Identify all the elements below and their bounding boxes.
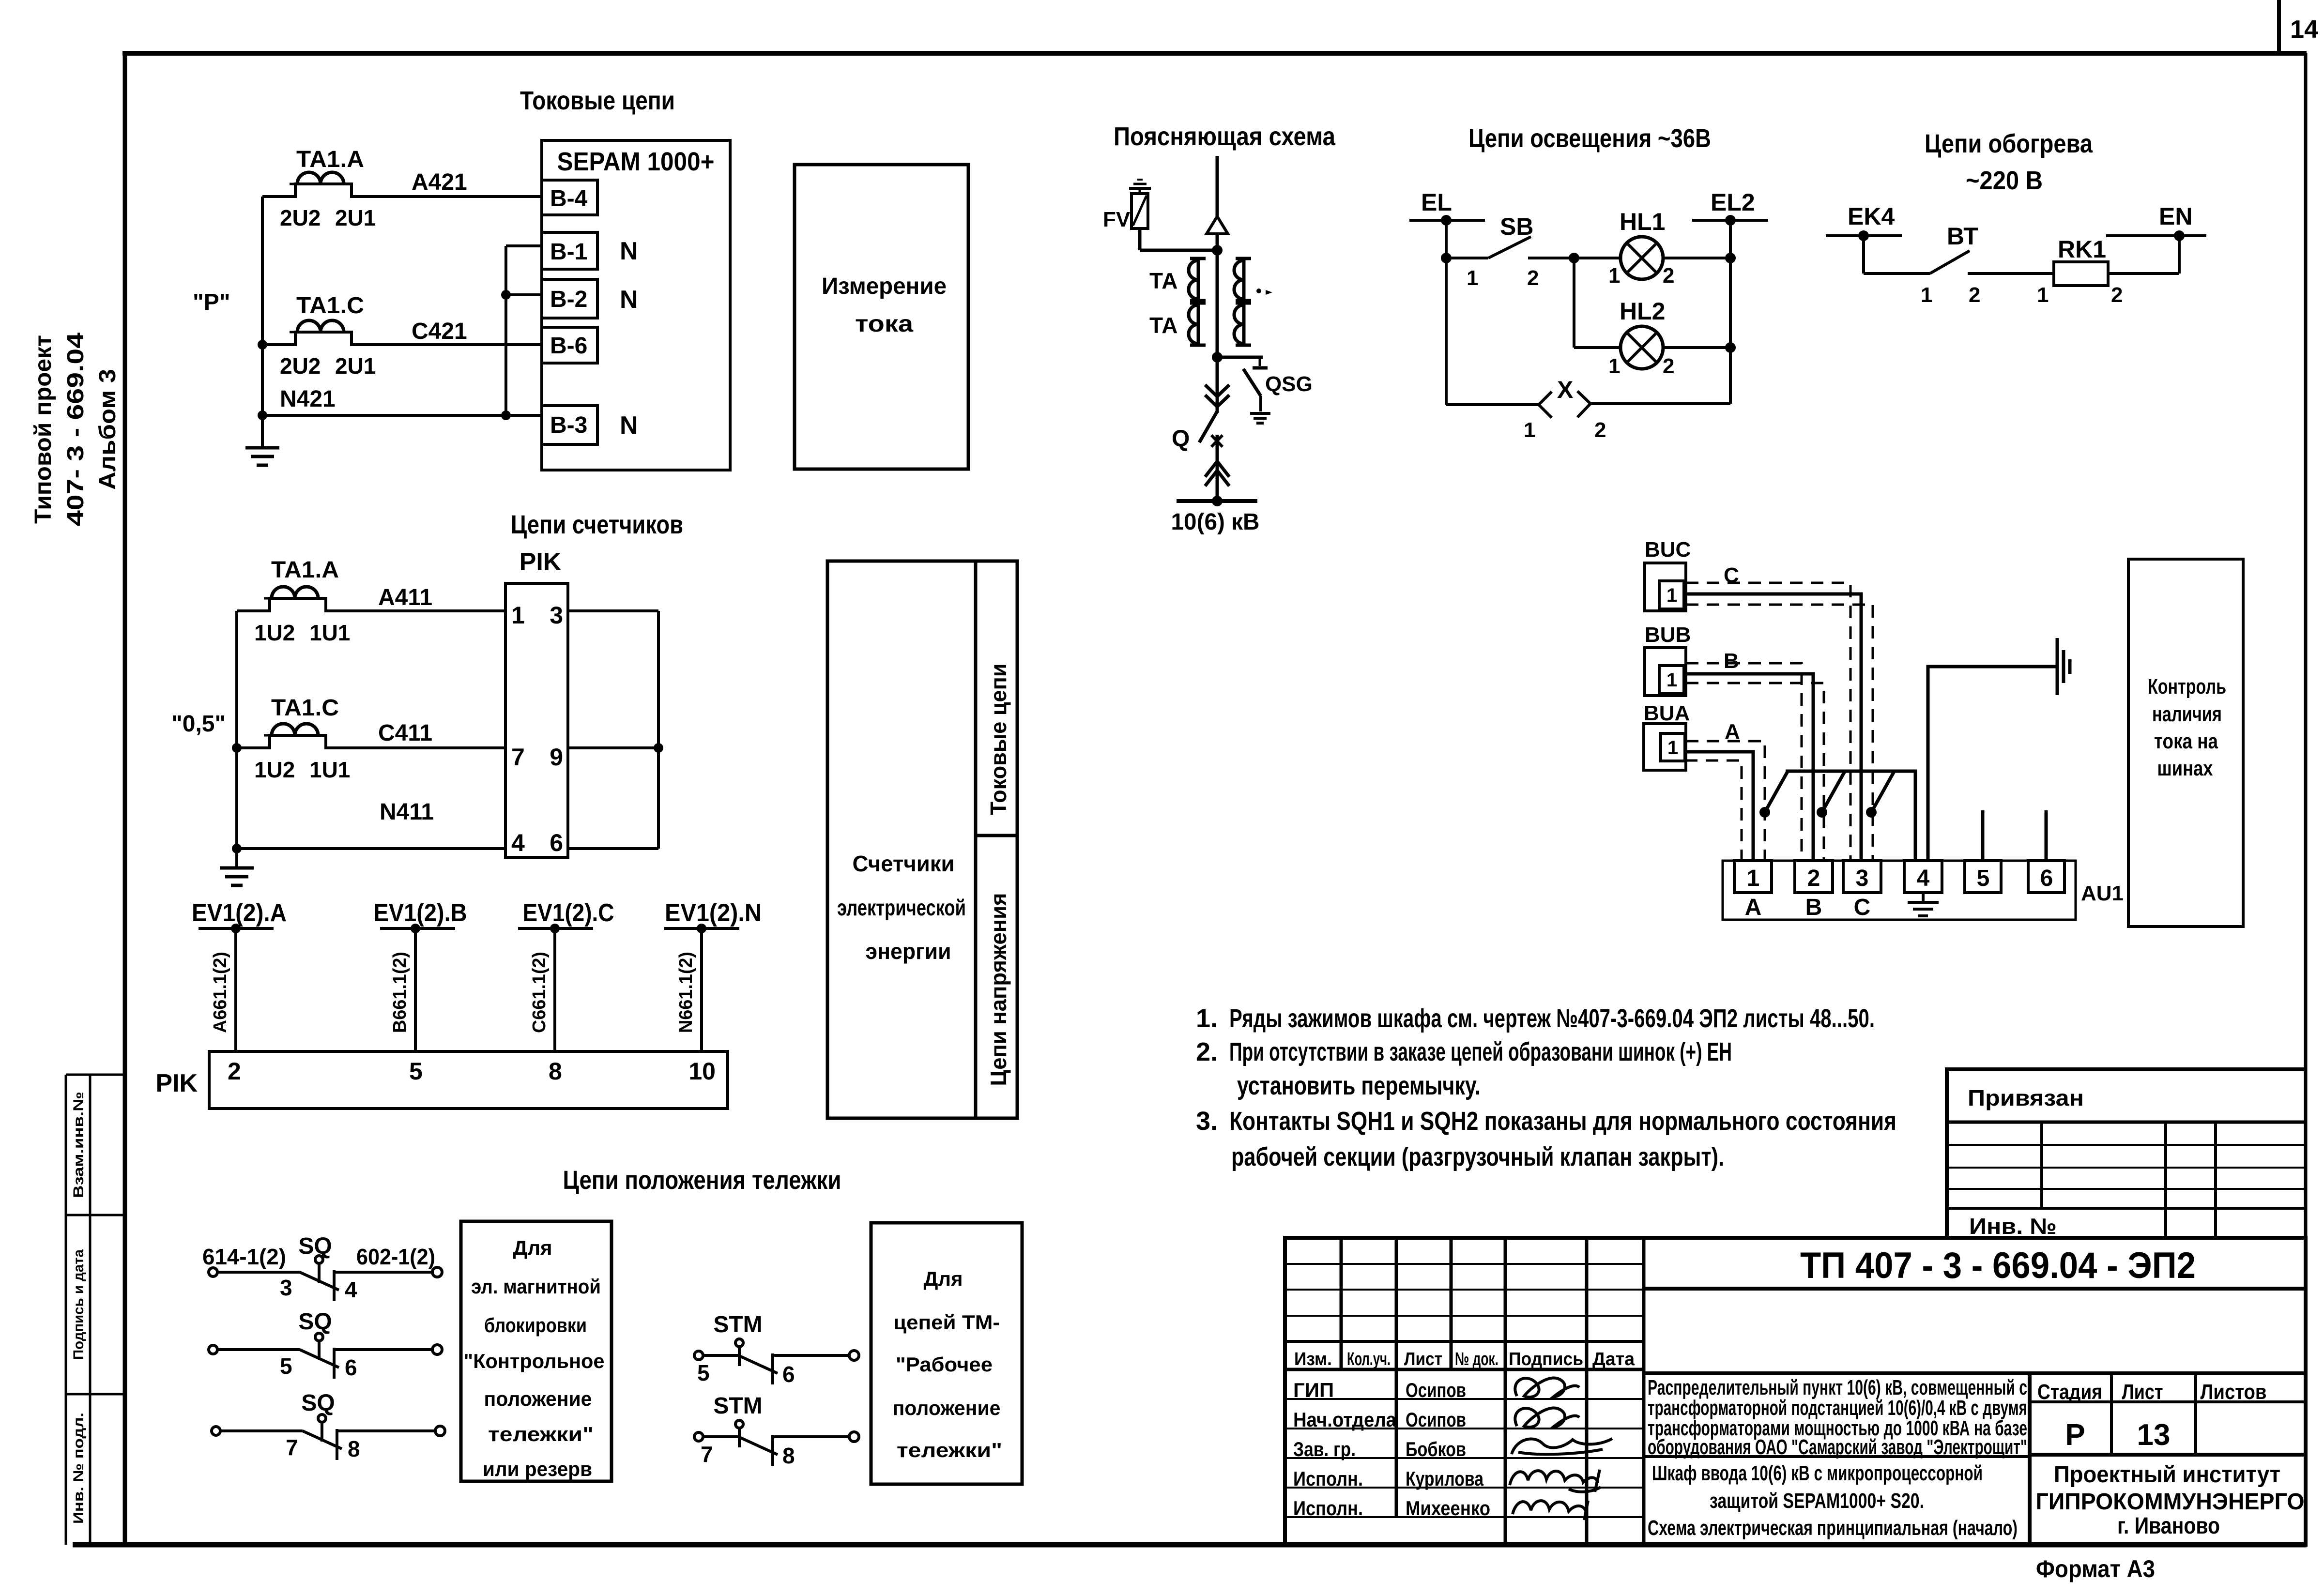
svg-text:А: А [1745,895,1762,920]
svg-text:цепей ТМ-: цепей ТМ- [893,1311,1000,1334]
svg-text:Лист: Лист [1404,1349,1442,1369]
svg-text:5: 5 [280,1353,292,1379]
svg-text:Для: Для [923,1267,963,1290]
svg-text:Шкаф ввода 10(6) кВ с микропро: Шкаф ввода 10(6) кВ с микропроцессорной [1652,1461,1983,1485]
svg-text:6: 6 [782,1362,795,1387]
svg-text:Поясняющая схема: Поясняющая схема [1114,122,1336,151]
svg-text:шинах: шинах [2157,757,2213,780]
svg-text:N661.1(2): N661.1(2) [676,952,696,1033]
svg-text:С: С [1854,895,1871,920]
svg-text:Листов: Листов [2201,1380,2267,1404]
svg-text:Р: Р [2065,1418,2085,1452]
svg-text:EL2: EL2 [1711,189,1755,216]
svg-text:Инв. №: Инв. № [1969,1214,2057,1239]
svg-text:защитой SEPAM1000+ S20.: защитой SEPAM1000+ S20. [1710,1489,1924,1513]
svg-text:С411: С411 [378,720,432,746]
svg-text:В-6: В-6 [550,333,587,359]
svg-text:электрической: электрической [837,895,966,920]
svg-text:или резерв: или резерв [483,1458,592,1480]
svg-text:2U2: 2U2 [280,353,321,379]
svg-text:Q: Q [1172,426,1190,452]
svg-text:2: 2 [1594,418,1606,442]
svg-text:2: 2 [1663,264,1674,288]
svg-text:10: 10 [688,1058,716,1085]
svg-text:3: 3 [1856,866,1869,891]
svg-text:"Р": "Р" [193,289,230,315]
svg-text:7: 7 [286,1435,298,1460]
svg-text:тележки": тележки" [897,1439,1002,1461]
svg-text:QSG: QSG [1265,372,1313,396]
svg-text:2: 2 [1663,354,1674,378]
svg-text:3: 3 [550,602,563,629]
svg-text:8: 8 [782,1443,795,1468]
svg-text:рабочей секции (разгрузочный к: рабочей секции (разгрузочный клапан закр… [1231,1142,1724,1171]
svg-text:10(6) кВ: 10(6) кВ [1171,509,1260,535]
svg-text:1: 1 [1667,737,1678,759]
svg-text:14: 14 [2290,15,2318,44]
svg-text:Исполн.: Исполн. [1293,1467,1363,1490]
svg-text:Курилова: Курилова [1406,1467,1484,1490]
svg-text:2U1: 2U1 [335,205,376,230]
svg-text:Альбом 3: Альбом 3 [95,369,121,490]
svg-text:Проектный институт: Проектный институт [2054,1462,2280,1488]
svg-text:1U1: 1U1 [309,757,350,782]
svg-text:"Контрольное: "Контрольное [464,1350,605,1372]
svg-text:~220 В: ~220 В [1966,166,2043,195]
svg-text:Контроль: Контроль [2148,675,2226,699]
svg-text:ВТ: ВТ [1947,223,1978,250]
svg-text:SEPAM 1000+: SEPAM 1000+ [557,147,715,176]
svg-text:7: 7 [511,744,525,771]
svg-text:Исполн.: Исполн. [1293,1497,1363,1520]
svg-text:1: 1 [1667,585,1677,606]
svg-text:положение: положение [484,1387,592,1410]
svg-text:Лист: Лист [2122,1380,2163,1404]
svg-text:N: N [620,237,638,265]
svg-text:положение: положение [893,1397,1001,1419]
svg-text:№ док.: № док. [1455,1349,1498,1369]
svg-text:Подпись: Подпись [1509,1349,1583,1369]
svg-text:Подпись и дата: Подпись и дата [71,1249,87,1360]
svg-text:2: 2 [1527,266,1539,290]
svg-text:С421: С421 [412,319,467,344]
svg-text:Кол.уч.: Кол.уч. [1347,1349,1391,1369]
svg-text:2U2: 2U2 [280,205,321,230]
svg-text:13: 13 [2137,1418,2171,1452]
svg-text:SB: SB [1500,213,1533,240]
svg-text:В661.1(2): В661.1(2) [390,952,410,1033]
svg-text:PIK: PIK [155,1069,198,1097]
svg-text:N: N [620,286,638,314]
svg-text:Цепи счетчиков: Цепи счетчиков [511,510,683,539]
svg-text:7: 7 [701,1442,713,1467]
svg-text:ТА1.А: ТА1.А [296,147,364,172]
svg-text:В-2: В-2 [550,287,587,312]
svg-text:Осипов: Осипов [1406,1408,1466,1431]
svg-text:Нач.отдела: Нач.отдела [1293,1408,1397,1431]
svg-text:9: 9 [550,744,563,771]
svg-text:тока на: тока на [2154,730,2218,753]
svg-text:Счетчики: Счетчики [853,851,955,876]
svg-text:ТП 407 - 3 - 669.04 - ЭП2: ТП 407 - 3 - 669.04 - ЭП2 [1800,1245,2196,1286]
svg-text:5: 5 [409,1058,423,1085]
svg-text:N411: N411 [380,799,434,825]
svg-text:STM: STM [713,1393,762,1419]
svg-text:2: 2 [2111,283,2123,307]
svg-text:Ряды зажимов шкафа см. чертеж: Ряды зажимов шкафа см. чертеж №407-3-669… [1229,1004,1875,1033]
svg-text:ТА1.С: ТА1.С [296,293,364,319]
svg-text:602-1(2): 602-1(2) [356,1244,435,1269]
svg-text:BUB: BUB [1645,623,1691,647]
svg-text:BUC: BUC [1645,538,1691,562]
svg-text:2: 2 [1807,866,1820,891]
svg-text:Токовые цепи: Токовые цепи [986,664,1011,815]
svg-text:Цепи освещения ~36В: Цепи освещения ~36В [1468,124,1711,153]
svg-text:1: 1 [2037,283,2049,307]
svg-text:ТА: ТА [1149,313,1177,338]
svg-text:Привязан: Привязан [1968,1085,2084,1110]
svg-text:Цепи положения тележки: Цепи положения тележки [563,1166,841,1195]
svg-text:1: 1 [1921,283,1932,307]
svg-text:1U2: 1U2 [254,757,295,782]
svg-text:1: 1 [1747,866,1760,891]
svg-text:В-4: В-4 [550,186,588,212]
svg-text:Для: Для [513,1236,552,1259]
svg-text:Дата: Дата [1592,1349,1635,1369]
svg-text:В-3: В-3 [550,412,587,438]
svg-text:Контакты SQH1 и SQH2 показаны: Контакты SQH1 и SQH2 показаны для нормал… [1229,1107,1896,1136]
svg-text:г. Иваново: г. Иваново [2117,1513,2220,1539]
svg-text:1: 1 [1608,354,1620,378]
svg-text:блокировки: блокировки [484,1314,587,1337]
svg-text:RK1: RK1 [2058,236,2106,263]
svg-text:В-1: В-1 [550,239,587,265]
svg-text:614-1(2): 614-1(2) [202,1244,286,1269]
svg-text:8: 8 [549,1058,562,1085]
svg-text:EV1(2).A: EV1(2).A [192,899,287,927]
svg-text:1: 1 [1524,418,1535,442]
svg-text:STM: STM [713,1312,762,1338]
svg-text:SQ: SQ [298,1309,332,1335]
svg-text:EV1(2).B: EV1(2).B [374,899,467,927]
svg-text:В: В [1724,649,1739,673]
svg-text:2.: 2. [1196,1037,1218,1066]
svg-text:Зав. гр.: Зав. гр. [1293,1438,1356,1460]
svg-text:5: 5 [1977,866,1990,891]
svg-text:EV1(2).N: EV1(2).N [665,899,762,927]
svg-text:Михеенко: Михеенко [1406,1497,1490,1520]
svg-text:6: 6 [345,1355,357,1380]
svg-text:3: 3 [280,1275,292,1300]
svg-text:SQ: SQ [301,1390,335,1416]
svg-text:С661.1(2): С661.1(2) [529,952,550,1033]
svg-text:оборудования ОАО "Самарский за: оборудования ОАО "Самарский завод "Элект… [1648,1435,2027,1459]
svg-text:наличия: наличия [2152,702,2222,726]
svg-text:Осипов: Осипов [1406,1379,1466,1401]
svg-text:BUA: BUA [1644,701,1690,725]
svg-text:тока: тока [855,311,913,337]
svg-text:В: В [1805,895,1822,920]
svg-text:установить перемычку.: установить перемычку. [1237,1071,1481,1100]
svg-text:5: 5 [697,1360,710,1385]
svg-text:Цепи напряжения: Цепи напряжения [986,893,1011,1086]
svg-text:эл. магнитной: эл. магнитной [471,1275,601,1298]
svg-text:PIK: PIK [520,548,562,576]
svg-text:6: 6 [2040,866,2053,891]
svg-text:энергии: энергии [866,939,951,964]
svg-text:2: 2 [228,1058,241,1085]
svg-text:А421: А421 [412,169,467,195]
svg-text:4: 4 [1917,866,1930,891]
svg-text:HL2: HL2 [1620,298,1665,325]
svg-text:"Рабочее: "Рабочее [896,1353,993,1376]
svg-text:1.: 1. [1196,1004,1218,1033]
svg-text:Цепи обогрева: Цепи обогрева [1925,129,2093,158]
svg-text:Схема электрическая принципиал: Схема электрическая принципиальная (нача… [1648,1516,2018,1540]
svg-text:407- 3 - 669.04: 407- 3 - 669.04 [63,333,89,526]
svg-text:EK4: EK4 [1848,203,1895,230]
svg-text:А411: А411 [378,585,432,610]
svg-text:Формат А3: Формат А3 [2036,1555,2155,1582]
svg-text:HL1: HL1 [1620,208,1665,235]
svg-text:4: 4 [345,1277,357,1302]
svg-text:FV: FV [1103,208,1131,231]
svg-text:Бобков: Бобков [1406,1438,1466,1460]
svg-text:1: 1 [1467,266,1478,290]
svg-text:ГИПРОКОММУНЭНЕРГО: ГИПРОКОММУНЭНЕРГО [2036,1489,2305,1515]
svg-text:8: 8 [348,1436,360,1461]
svg-text:"0,5": "0,5" [171,711,226,737]
svg-text:3.: 3. [1196,1107,1218,1136]
svg-text:1: 1 [1608,264,1620,288]
svg-text:Стадия: Стадия [2037,1380,2102,1404]
svg-text:2: 2 [1969,283,1980,307]
svg-text:Инв. № подл.: Инв. № подл. [71,1413,87,1524]
svg-text:1U1: 1U1 [309,620,350,645]
svg-text:Токовые цепи: Токовые цепи [520,86,675,115]
svg-text:Изм.: Изм. [1294,1349,1332,1369]
svg-text:ГИП: ГИП [1293,1379,1334,1401]
svg-text:SQ: SQ [298,1233,332,1259]
svg-text:1: 1 [1667,669,1677,691]
svg-text:Взам.инв.№: Взам.инв.№ [71,1092,87,1198]
svg-text:EV1(2).C: EV1(2).C [523,899,614,927]
svg-text:Типовой проект: Типовой проект [31,335,56,524]
svg-text:N: N [620,411,638,440]
svg-text:Х: Х [1557,376,1573,403]
svg-text:AU1: AU1 [2081,882,2124,905]
svg-text:тележки": тележки" [488,1423,594,1445]
svg-text:1: 1 [511,602,525,629]
svg-text:2U1: 2U1 [335,353,376,379]
svg-text:ТА1.А: ТА1.А [271,557,339,583]
svg-text:N421: N421 [280,386,336,412]
svg-text:Измерение: Измерение [822,274,947,299]
svg-text:EL: EL [1421,189,1452,216]
svg-text:При отсутствии в заказе цепей: При отсутствии в заказе цепей образовани… [1229,1037,1732,1066]
svg-text:ТА1.С: ТА1.С [271,695,339,721]
svg-text:EN: EN [2159,203,2192,230]
svg-text:ТА: ТА [1149,268,1177,293]
svg-text:4: 4 [511,829,525,856]
svg-text:1U2: 1U2 [254,620,295,645]
svg-text:А661.1(2): А661.1(2) [210,952,230,1033]
svg-text:6: 6 [550,829,563,856]
